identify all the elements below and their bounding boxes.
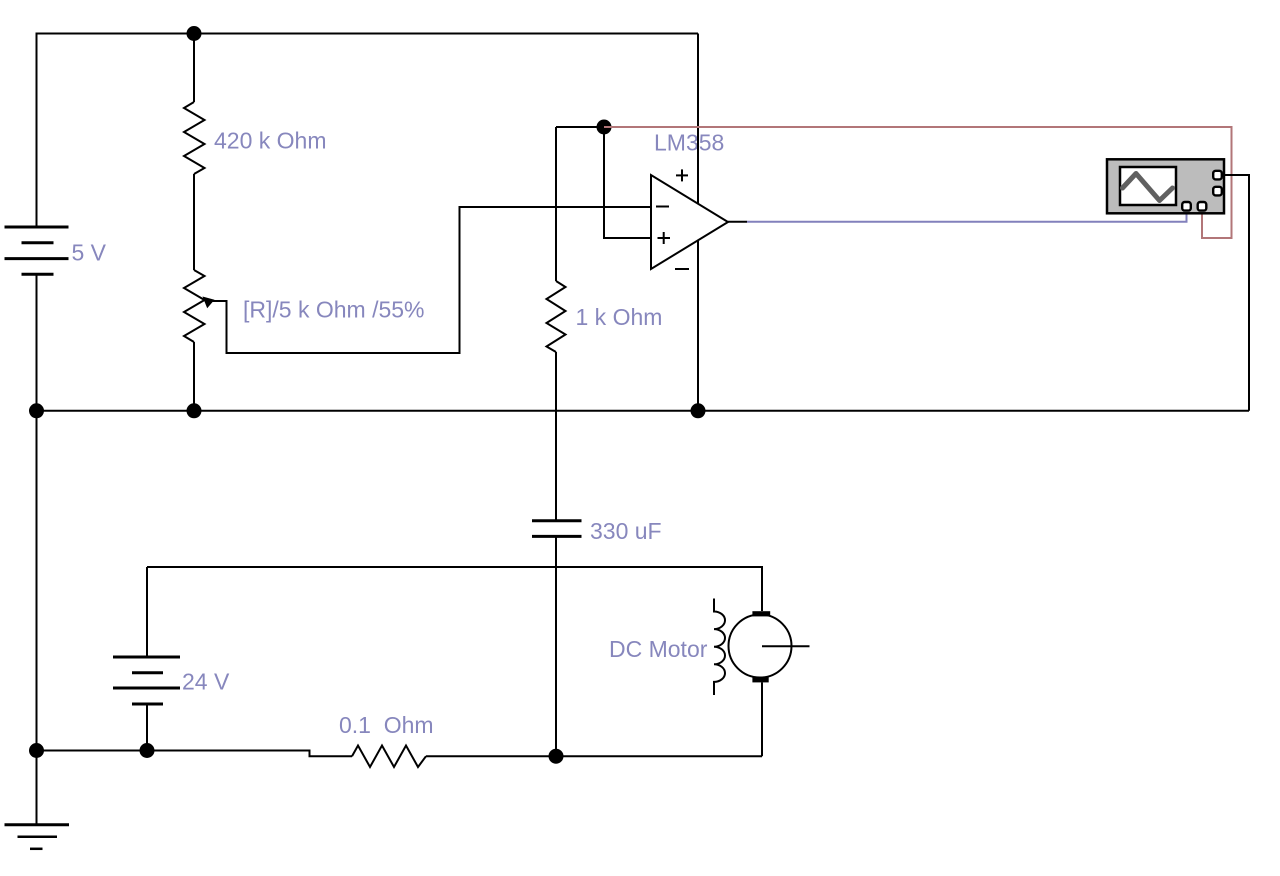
label 0.1 Ohm [339, 712, 434, 738]
capacitor C1 330 uF [532, 521, 582, 537]
label 5 V [72, 240, 107, 266]
label 330 uF [590, 518, 662, 544]
oscilloscope terminal right 1 [1213, 171, 1222, 180]
label 24 V [182, 669, 230, 695]
ground symbol [5, 751, 70, 849]
op-amp V- minus sign [675, 268, 689, 270]
wire potentiometer bottom lead [193, 342, 195, 411]
resistor R3 1 k Ohm [547, 281, 566, 352]
op-amp V- power pin wire [697, 241, 699, 411]
wire 1k top lead [555, 127, 557, 281]
label [R]/5 k Ohm /55% [243, 297, 425, 323]
wire R1 to potentiometer [193, 174, 195, 270]
wire 24V bottom lead [146, 704, 148, 751]
node dot 24V battery bottom junction [140, 743, 155, 758]
resistor R4 0.1 Ohm [352, 746, 426, 768]
node dot top rail / R1 junction [187, 26, 202, 41]
svg-text:1 k Ohm: 1 k Ohm [576, 304, 663, 330]
svg-text:420 k Ohm: 420 k Ohm [214, 128, 327, 154]
wire middle bus [37, 410, 1250, 412]
svg-text:LM358: LM358 [654, 130, 724, 156]
wire red node A to oscilloscope channel B [604, 127, 1232, 238]
wire capacitor bottom lead [555, 538, 557, 757]
op-amp U1 LM358 triangle [651, 175, 728, 269]
svg-text:0.1 Ohm: 0.1 Ohm [339, 712, 434, 738]
motor M1 armature circle [729, 615, 792, 678]
label DC Motor [609, 636, 708, 662]
svg-text:330 uF: 330 uF [590, 518, 662, 544]
oscilloscope terminal bottom 1 [1182, 202, 1191, 211]
motor M1 field coil [714, 599, 725, 696]
wire 24V top lead [146, 567, 148, 657]
op-amp V+ plus sign [676, 169, 688, 181]
node dot left bus junction [29, 403, 44, 418]
label LM358 [654, 130, 724, 156]
node dot capacitor / bottom bus junction [549, 749, 564, 764]
wire oscilloscope ground to bus [1222, 175, 1250, 411]
oscilloscope screen [1120, 167, 1176, 205]
potentiometer R2 body [184, 270, 205, 342]
op-amp non-inverting input plus sign [658, 232, 671, 244]
label 420 k Ohm [214, 128, 327, 154]
svg-text:5 V: 5 V [72, 240, 107, 266]
label 1 k Ohm [576, 304, 663, 330]
wire wiper to op-amp inverting input [209, 207, 651, 353]
svg-text:24 V: 24 V [182, 669, 230, 695]
motor M1 shaft [762, 645, 810, 647]
wire op-amp output stub [728, 221, 747, 223]
motor M1 top brush terminal [752, 611, 770, 616]
potentiometer wiper arrow [203, 297, 215, 309]
node dot bottom-left ground junction [29, 743, 44, 758]
wire top rail [37, 33, 699, 35]
node dot pot bottom / bus junction [187, 403, 202, 418]
wire node A horizontal (556 to 604) [556, 126, 604, 128]
op-amp V+ power pin wire [697, 34, 699, 204]
wire 1k bottom lead to capacitor [555, 352, 557, 520]
wire 24V to motor top [147, 567, 762, 611]
oscilloscope XSC1 body [1107, 159, 1224, 213]
wire left vertical upper (5V top lead) [36, 33, 38, 228]
resistor R1 420 k Ohm [184, 102, 205, 174]
op-amp inverting input minus sign [656, 206, 669, 208]
wire node A down to non-inverting input [604, 127, 651, 238]
oscilloscope sine trace [1123, 174, 1173, 201]
node dot A [597, 120, 612, 135]
motor M1 bottom brush terminal [752, 677, 768, 683]
wire bottom bus right segment [426, 755, 762, 757]
svg-text:DC Motor: DC Motor [609, 636, 708, 662]
wire blue output to oscilloscope channel A [747, 211, 1187, 222]
node dot op-amp power / bus junction [691, 403, 706, 418]
battery V2 24V [113, 657, 180, 704]
wire R1 top lead [193, 34, 195, 103]
wire motor bottom lead [761, 682, 763, 756]
wire left vertical lower (5V bottom lead to ground bus) [36, 274, 38, 750]
svg-text:[R]/5 k Ohm /55%: [R]/5 k Ohm /55% [243, 297, 425, 323]
oscilloscope terminal bottom 2 [1198, 202, 1207, 211]
battery V1 5V [5, 227, 69, 274]
wire bottom bus left segment [37, 751, 353, 757]
oscilloscope terminal right 2 [1213, 187, 1222, 196]
